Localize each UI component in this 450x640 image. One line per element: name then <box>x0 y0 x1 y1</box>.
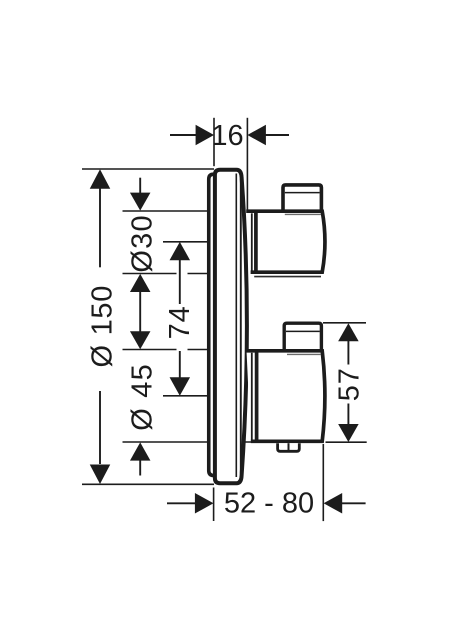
arrow diameter30 bottom <box>130 274 151 292</box>
arrow diameter150 bottom <box>90 465 111 485</box>
top handle lower silhouette line <box>254 276 321 278</box>
top handle sleeve line <box>251 213 253 271</box>
bottom handle step shadow line <box>287 353 321 355</box>
dimension line diameter150 upper segment <box>99 189 101 268</box>
svg-text:57: 57 <box>334 367 366 401</box>
dimension line 52-80 left tail <box>167 502 195 504</box>
arrow 16 left <box>196 125 214 145</box>
arrow diameter45 top <box>130 331 151 349</box>
dimension line diameter150 lower segment <box>99 391 101 464</box>
svg-text:Ø30: Ø30 <box>126 214 158 272</box>
dimension line 57 lower segment <box>347 404 349 425</box>
extension line 74 bottom (y=395.8) <box>163 395 208 397</box>
escutcheon plate body (side view, convex face) <box>215 170 247 484</box>
arrow diameter45 bottom <box>130 442 151 460</box>
extension line 52-80 left (x=213.6) <box>213 488 215 522</box>
extension line 16 left (x=214) <box>213 118 215 166</box>
dimension line diameter30 top tail <box>139 178 141 194</box>
extension line 16 right (x=247.4) <box>246 118 248 211</box>
top handle step shadow line <box>285 213 321 215</box>
bottom handle spout tab <box>278 443 300 451</box>
bottom handle sleeve line <box>251 353 253 440</box>
dimension line 57 upper segment <box>347 341 349 365</box>
escutcheon back flange (side view, behind plate) <box>209 174 225 475</box>
extension line diameter30 bottom (y=273.5, gap at 74 line) <box>123 273 215 275</box>
dimension line 74 upper segment <box>179 260 181 304</box>
arrow 74 top <box>170 242 191 260</box>
dimension line 16 left tail <box>170 134 196 136</box>
arrow 57 bottom <box>338 424 359 442</box>
extension line diameter150 top (y=169) <box>82 168 214 170</box>
bottom handle step (upper cap) <box>284 323 321 351</box>
svg-text:Ø 45: Ø 45 <box>126 363 158 431</box>
plate inner face line <box>235 174 237 478</box>
extension line diameter45 bottom (y=442) <box>123 441 254 443</box>
bottom handle body (diameter 45) <box>247 351 325 442</box>
plate cylinder silhouette line <box>240 179 242 474</box>
arrow 16 right <box>247 125 266 145</box>
bottom handle tab divider <box>288 443 290 451</box>
dimension line 16 right tail <box>266 134 290 136</box>
dimension line between diameter30 and diameter45 arrows <box>139 292 141 332</box>
arrow 52-80 right <box>324 493 343 514</box>
dimension line diameter45 bottom tail <box>139 460 141 475</box>
extension line 52-80 right (x=323.3) <box>322 444 324 521</box>
extension line 74 top (y=241.8) <box>163 241 208 243</box>
svg-text:16: 16 <box>211 120 243 152</box>
top handle step (upper cap) <box>283 185 321 211</box>
bottom handle step inner line <box>286 330 320 332</box>
dimension line 52-80 right tail <box>342 502 366 504</box>
arrow diameter150 top <box>90 169 111 189</box>
extension line diameter45 top (y=349.5, gap at 74 line) <box>123 349 215 351</box>
extension line 57 top (y=322.8) <box>323 322 366 324</box>
extension line diameter30 top (y=211) <box>123 210 215 212</box>
top handle body (diameter 30) <box>246 211 325 272</box>
extension line diameter150 bottom (y=484.3) <box>82 483 214 485</box>
svg-text:74: 74 <box>164 305 196 339</box>
arrow diameter30 top <box>130 193 151 211</box>
extension line 57 bottom (y=442.2) <box>326 441 367 443</box>
arrow 52-80 left <box>195 493 214 514</box>
svg-text:Ø 150: Ø 150 <box>87 285 119 368</box>
svg-text:52 - 80: 52 - 80 <box>224 488 314 520</box>
arrow 57 top <box>338 323 359 341</box>
dimension line 74 lower segment <box>179 351 181 378</box>
arrow 74 bottom <box>170 377 191 395</box>
top handle step inner line <box>285 192 320 194</box>
